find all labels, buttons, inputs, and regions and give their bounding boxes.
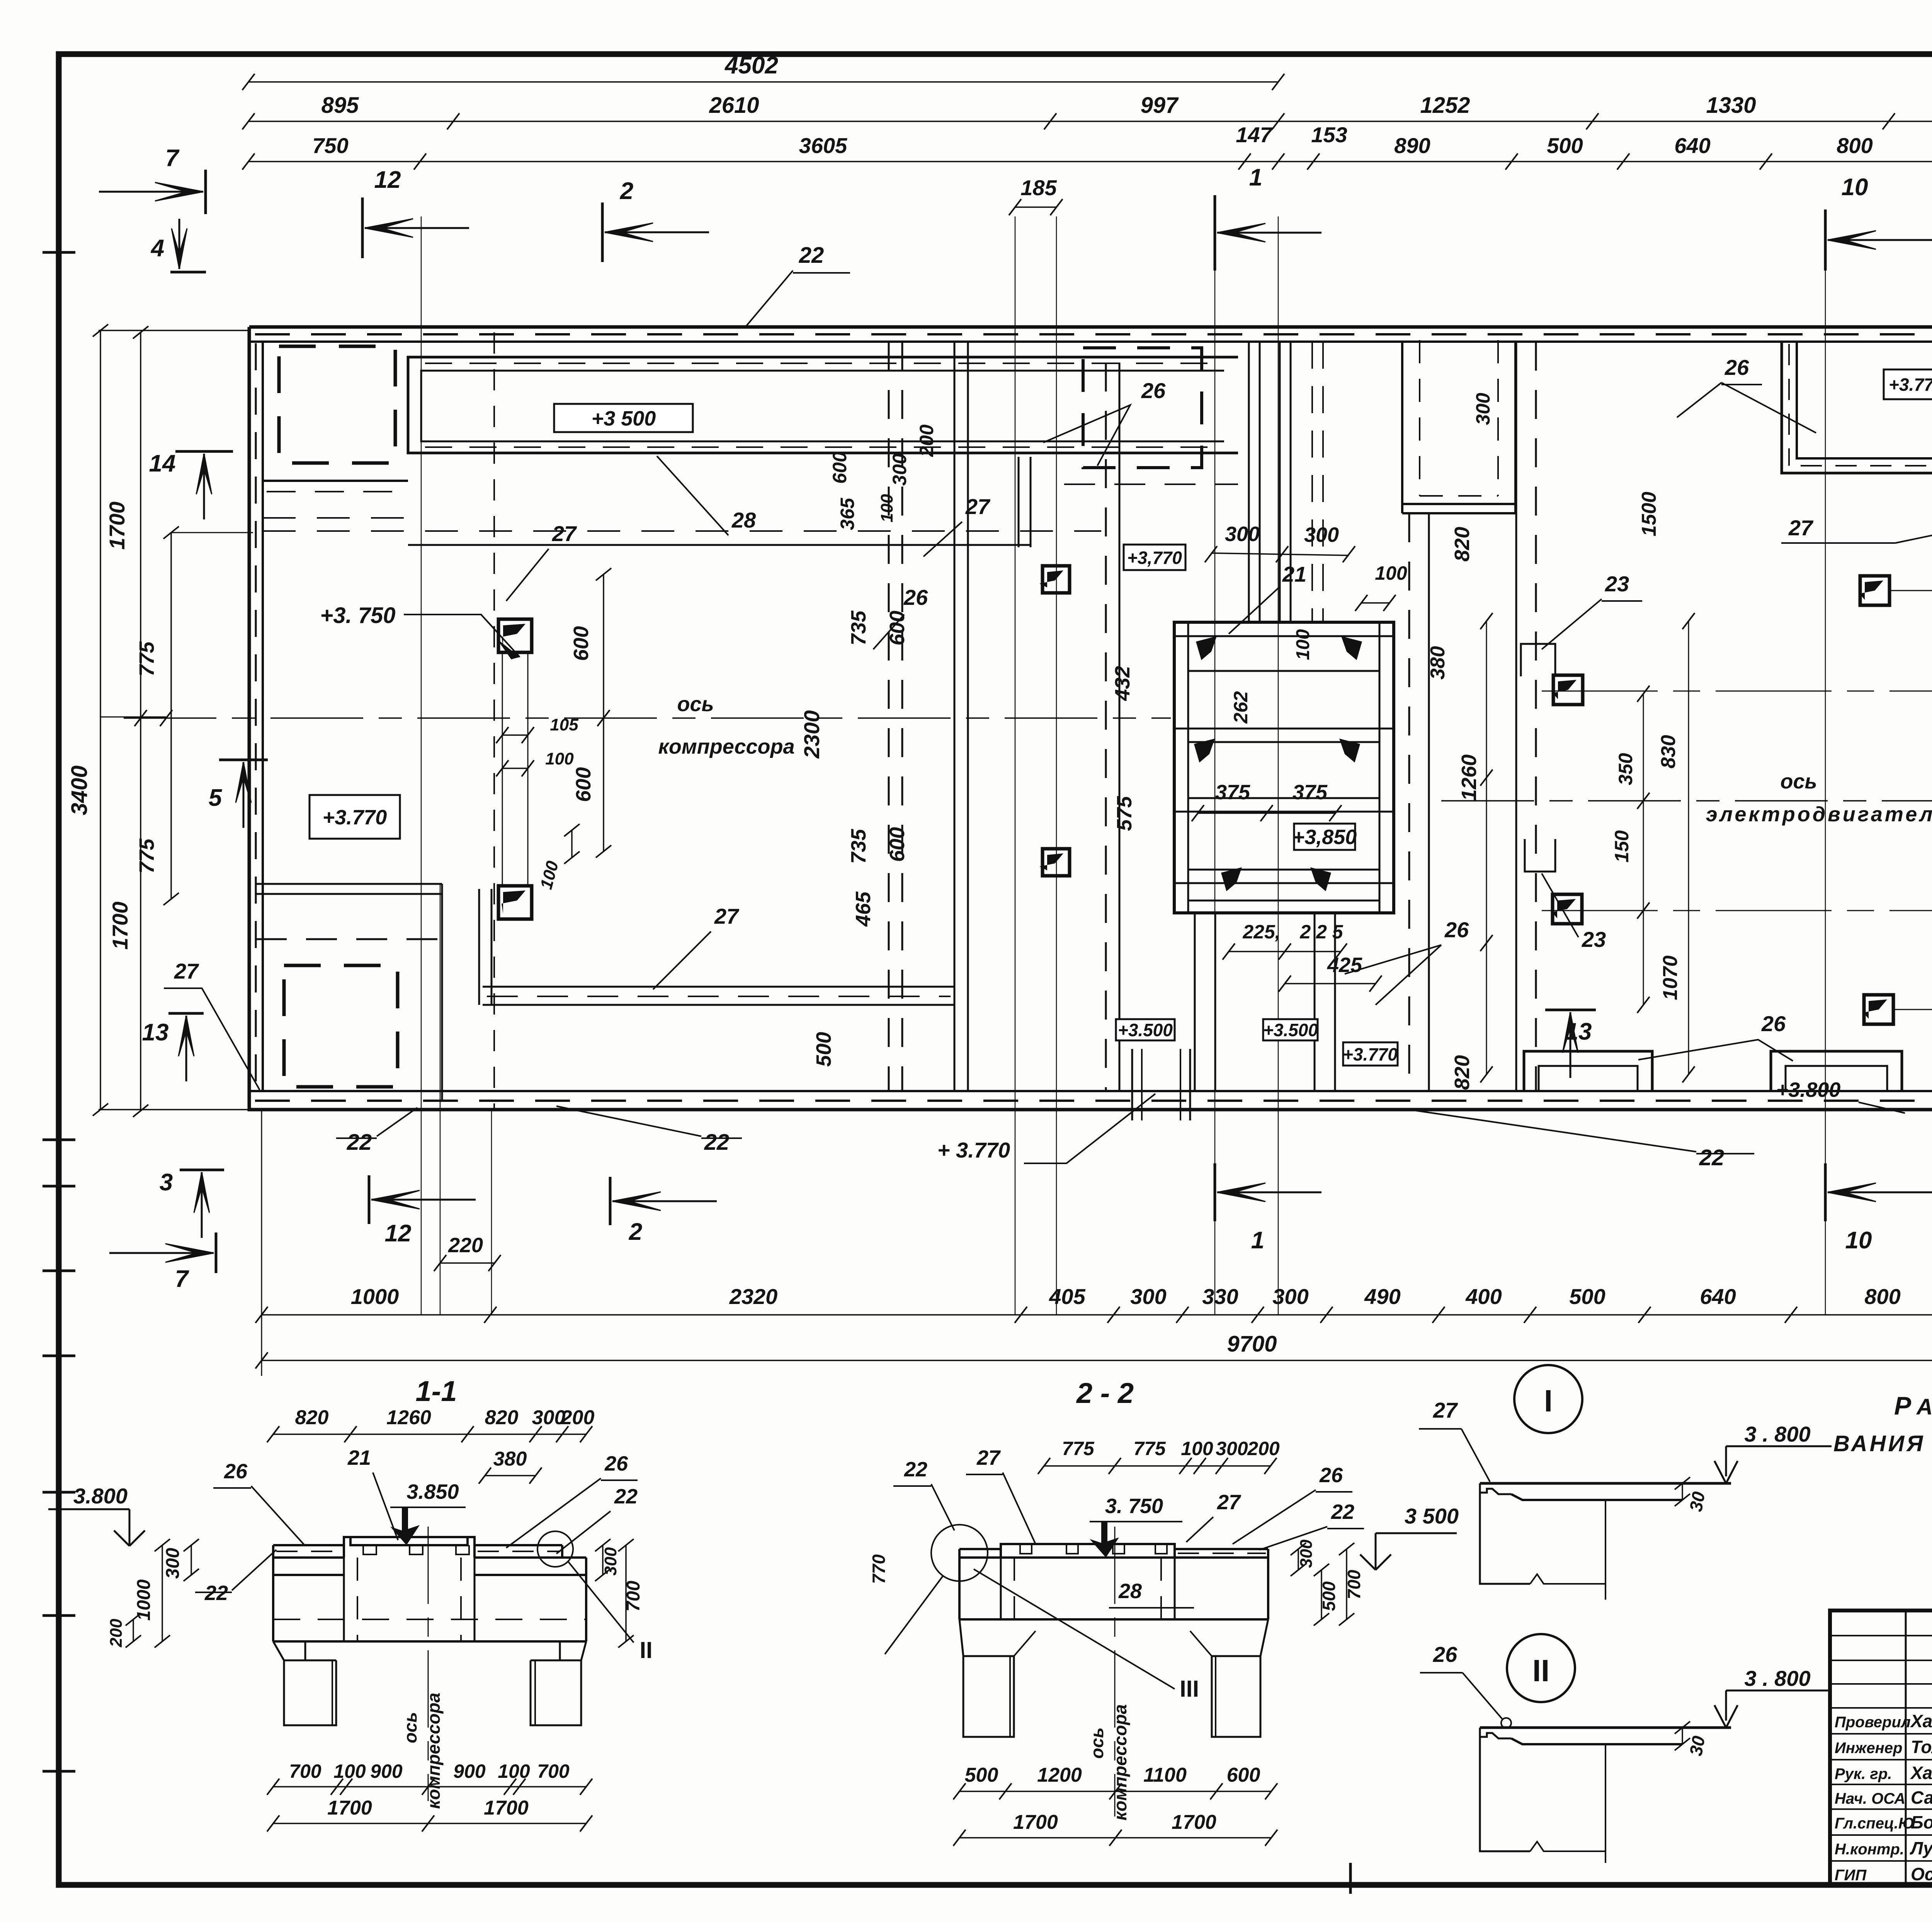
motor axis bbox=[1441, 800, 1932, 802]
detail I 30 dim bbox=[1682, 1483, 1683, 1500]
svg-text:490: 490 bbox=[1364, 1284, 1400, 1309]
svg-text:300: 300 bbox=[1225, 523, 1260, 546]
svg-text:4: 4 bbox=[150, 235, 164, 262]
svg-text:27: 27 bbox=[552, 521, 577, 546]
section mark 14 bbox=[175, 450, 233, 453]
svg-text:+3.770: +3.770 bbox=[323, 806, 387, 829]
svg-text:27: 27 bbox=[1788, 516, 1814, 540]
level label +3,850 bbox=[1294, 824, 1355, 850]
svg-text:30: 30 bbox=[1685, 1734, 1709, 1757]
svg-text:5: 5 bbox=[209, 785, 223, 811]
svg-text:770: 770 bbox=[869, 1554, 889, 1584]
svg-text:+3.500: +3.500 bbox=[1263, 1020, 1318, 1040]
svg-text:3.850: 3.850 bbox=[406, 1480, 459, 1503]
title block outer bbox=[1830, 1610, 1932, 1885]
svg-text:2610: 2610 bbox=[709, 93, 759, 118]
section mark 12 bbox=[361, 197, 364, 258]
svg-text:26: 26 bbox=[224, 1460, 248, 1483]
west room south wall bbox=[256, 883, 442, 885]
svg-text:375: 375 bbox=[1293, 781, 1328, 804]
dim 100 over pedestal bbox=[1361, 602, 1389, 604]
svg-text:600: 600 bbox=[572, 767, 595, 802]
svg-text:600: 600 bbox=[1227, 1764, 1260, 1786]
svg-text:1700: 1700 bbox=[327, 1797, 372, 1819]
dims 225/225/425 below pedestal bbox=[1229, 951, 1341, 952]
svg-text:4502: 4502 bbox=[724, 52, 778, 79]
svg-text:262: 262 bbox=[1230, 691, 1252, 724]
section mark 3 bbox=[180, 1169, 224, 1171]
svg-text:100: 100 bbox=[1293, 629, 1313, 660]
svg-text:Толмачева: Толмачева bbox=[1911, 1737, 1932, 1757]
svg-text:+3. 750: +3. 750 bbox=[320, 603, 395, 628]
pedestal risers to bottom band bbox=[1194, 913, 1196, 1091]
svg-text:820: 820 bbox=[1451, 527, 1474, 562]
svg-text:компрессора: компрессора bbox=[1110, 1704, 1130, 1821]
svg-text:380: 380 bbox=[493, 1448, 527, 1470]
svg-text:Гл.спец.Ю: Гл.спец.Ю bbox=[1835, 1815, 1915, 1832]
svg-text:9700: 9700 bbox=[1227, 1331, 1277, 1357]
svg-text:735: 735 bbox=[847, 829, 870, 864]
svg-text:3 500: 3 500 bbox=[1405, 1504, 1459, 1528]
detail I profile bbox=[1480, 1482, 1731, 1485]
level label +3,770 bbox=[1124, 545, 1185, 570]
pit dashed square top-left bbox=[279, 346, 395, 463]
svg-text:2320: 2320 bbox=[729, 1284, 778, 1309]
walls east of pedestal bbox=[1408, 513, 1410, 1091]
svg-text:3 . 800: 3 . 800 bbox=[1744, 1666, 1810, 1690]
svg-text:Р: Р bbox=[1894, 1391, 1912, 1420]
svg-text:330: 330 bbox=[1202, 1284, 1238, 1309]
pedestal inner lines bbox=[1174, 635, 1394, 637]
svg-text:2300: 2300 bbox=[799, 710, 824, 759]
plan outer contour bbox=[249, 325, 1932, 329]
svg-text:900: 900 bbox=[370, 1760, 403, 1782]
svg-text:153: 153 bbox=[1311, 123, 1347, 147]
svg-text:300: 300 bbox=[1216, 1438, 1248, 1459]
svg-text:1252: 1252 bbox=[1420, 93, 1470, 118]
svg-text:1070: 1070 bbox=[1659, 955, 1682, 1000]
svg-text:21: 21 bbox=[1282, 562, 1306, 586]
niche east of risers bbox=[1401, 342, 1403, 513]
vertical dims right of 1-1 bbox=[602, 1545, 604, 1575]
svg-text:100: 100 bbox=[545, 749, 574, 768]
svg-text:220: 220 bbox=[448, 1234, 483, 1257]
section 2-2 body bbox=[959, 1548, 1001, 1550]
svg-text:26: 26 bbox=[1141, 378, 1166, 403]
section mark 12 bbox=[368, 1175, 371, 1224]
svg-text:1700: 1700 bbox=[105, 502, 129, 550]
svg-text:225,: 225, bbox=[1242, 921, 1280, 943]
svg-text:400: 400 bbox=[1465, 1284, 1502, 1309]
svg-text:14: 14 bbox=[149, 450, 176, 477]
section mark 5 bbox=[219, 759, 268, 761]
svg-text:Бояоченко: Бояоченко bbox=[1911, 1812, 1932, 1832]
svg-text:150: 150 bbox=[1611, 830, 1633, 863]
svg-text:700: 700 bbox=[289, 1760, 321, 1782]
section 1-1 bottom dims bbox=[273, 1786, 586, 1788]
svg-text:27: 27 bbox=[1433, 1398, 1458, 1422]
svg-text:3400: 3400 bbox=[67, 765, 92, 815]
trench +3.500 bbox=[408, 357, 1238, 453]
svg-text:100: 100 bbox=[498, 1760, 530, 1782]
plan bottom wall band bbox=[249, 1090, 1932, 1092]
svg-text:Саакьянц: Саакьянц bbox=[1911, 1788, 1932, 1808]
svg-text:3 . 800: 3 . 800 bbox=[1744, 1422, 1810, 1446]
svg-text:185: 185 bbox=[1020, 175, 1057, 200]
dashed pit right of trench bbox=[1083, 348, 1202, 468]
svg-text:7: 7 bbox=[165, 145, 180, 172]
svg-text:700: 700 bbox=[1344, 1570, 1364, 1599]
section 2-2 bottom dims bbox=[959, 1791, 1271, 1792]
svg-text:III: III bbox=[1180, 1676, 1199, 1702]
svg-text:775: 775 bbox=[135, 838, 158, 873]
svg-text:26: 26 bbox=[1725, 355, 1749, 380]
svg-text:3: 3 bbox=[160, 1169, 173, 1196]
svg-text:Нач. ОСА: Нач. ОСА bbox=[1835, 1790, 1905, 1807]
svg-text:200: 200 bbox=[1247, 1438, 1280, 1459]
svg-text:+ 3.770: + 3.770 bbox=[937, 1138, 1010, 1162]
section mark 1 bbox=[1214, 1163, 1216, 1221]
svg-text:+3,850: +3,850 bbox=[1293, 826, 1357, 849]
svg-text:Рук. гр.: Рук. гр. bbox=[1835, 1765, 1892, 1782]
dims over pedestal 300/300 bbox=[1211, 553, 1349, 555]
svg-text:350: 350 bbox=[1615, 753, 1636, 785]
svg-text:1700: 1700 bbox=[484, 1797, 529, 1819]
section mark 10 bbox=[1824, 1163, 1827, 1221]
svg-text:23: 23 bbox=[1605, 572, 1629, 596]
frame centering ticks bbox=[43, 251, 75, 254]
svg-text:28: 28 bbox=[1118, 1580, 1142, 1603]
svg-text:ось: ось bbox=[677, 693, 714, 716]
svg-text:13: 13 bbox=[142, 1019, 169, 1046]
svg-text:600: 600 bbox=[570, 626, 593, 661]
svg-text:465: 465 bbox=[852, 891, 875, 927]
svg-text:компрессора: компрессора bbox=[423, 1693, 444, 1809]
pedestal risers to top band bbox=[1248, 342, 1250, 623]
wall band below trench bbox=[263, 530, 1101, 532]
svg-text:II: II bbox=[639, 1637, 652, 1663]
svg-text:22: 22 bbox=[704, 1130, 730, 1155]
svg-text:Ханин: Ханин bbox=[1910, 1763, 1932, 1783]
svg-text:Ханин: Ханин bbox=[1910, 1711, 1932, 1731]
svg-text:300: 300 bbox=[1304, 523, 1339, 546]
svg-text:22: 22 bbox=[614, 1485, 638, 1508]
svg-text:300: 300 bbox=[601, 1547, 620, 1576]
svg-text:300: 300 bbox=[163, 1548, 183, 1579]
svg-text:1700: 1700 bbox=[1013, 1811, 1058, 1833]
svg-text:800: 800 bbox=[1864, 1284, 1900, 1309]
svg-text:1100: 1100 bbox=[1143, 1764, 1187, 1786]
svg-text:775: 775 bbox=[135, 641, 158, 676]
section mark 2 bbox=[609, 1177, 612, 1225]
left vertical dimension columns bbox=[100, 330, 101, 1110]
bottom dim row values bbox=[262, 1314, 1932, 1316]
svg-text:+3 500: +3 500 bbox=[592, 407, 656, 430]
svg-text:2 2 5: 2 2 5 bbox=[1299, 921, 1343, 943]
plan left wall lines bbox=[262, 342, 264, 1091]
svg-text:ось: ось bbox=[400, 1712, 420, 1743]
svg-text:300: 300 bbox=[1272, 1284, 1308, 1309]
svg-text:2: 2 bbox=[620, 178, 633, 204]
svg-text:26: 26 bbox=[1433, 1642, 1458, 1667]
svg-text:365: 365 bbox=[837, 497, 858, 530]
section 1-1 top dims bbox=[273, 1433, 586, 1435]
svg-text:300: 300 bbox=[532, 1406, 566, 1429]
svg-text:26: 26 bbox=[604, 1452, 628, 1475]
bottom niches bbox=[1524, 1051, 1652, 1091]
svg-text:+3.770: +3.770 bbox=[1343, 1044, 1398, 1064]
svg-text:820: 820 bbox=[1451, 1055, 1474, 1090]
section mark 7 bbox=[204, 170, 207, 214]
detail II profile bbox=[1480, 1726, 1731, 1729]
svg-text:Проверил: Проверил bbox=[1835, 1714, 1911, 1731]
dimension row 750/3605/147/153/890/500/640/800/350/1865 bbox=[248, 161, 1932, 162]
elevation mark 3 500 bbox=[1360, 1554, 1376, 1570]
svg-text:900: 900 bbox=[453, 1760, 486, 1782]
svg-text:640: 640 bbox=[1700, 1284, 1736, 1309]
svg-text:1-1: 1-1 bbox=[416, 1375, 457, 1407]
column base squares left hall bbox=[498, 619, 532, 652]
svg-text:500: 500 bbox=[965, 1764, 998, 1786]
svg-text:200: 200 bbox=[561, 1406, 595, 1429]
column squares pedestal bay bbox=[1043, 566, 1070, 593]
detail II 30 dim bbox=[1682, 1728, 1683, 1744]
svg-text:+3.770: +3.770 bbox=[1889, 375, 1932, 395]
svg-text:10: 10 bbox=[1845, 1227, 1872, 1254]
svg-text:II: II bbox=[1532, 1653, 1549, 1688]
west wall piece of pedestal bay bbox=[1018, 457, 1020, 547]
wall steps label 23 bbox=[1521, 644, 1555, 676]
svg-text:1330: 1330 bbox=[1706, 93, 1756, 118]
compressor room south wall bbox=[483, 986, 954, 988]
section mark 1 bbox=[1214, 195, 1216, 271]
svg-text:600: 600 bbox=[886, 827, 909, 862]
svg-text:500: 500 bbox=[1547, 133, 1583, 158]
svg-text:22: 22 bbox=[1699, 1145, 1725, 1170]
plan top wall band bbox=[249, 340, 1932, 343]
svg-text:26: 26 bbox=[1761, 1011, 1786, 1036]
svg-text:ось: ось bbox=[1087, 1728, 1107, 1759]
svg-text:100: 100 bbox=[878, 494, 896, 523]
NW room south wall bbox=[263, 480, 408, 482]
svg-text:1: 1 bbox=[1251, 1227, 1264, 1254]
cut trace lines bbox=[421, 216, 422, 1315]
svg-text:775: 775 bbox=[1133, 1438, 1166, 1459]
section 1-1 body bbox=[273, 1544, 344, 1546]
svg-text:22: 22 bbox=[904, 1458, 927, 1481]
svg-text:1260: 1260 bbox=[386, 1406, 431, 1429]
svg-text:1700: 1700 bbox=[108, 902, 132, 950]
svg-text:700: 700 bbox=[623, 1581, 644, 1612]
section mark 10 bbox=[1824, 209, 1827, 271]
pit dashed square bottom-left bbox=[284, 965, 398, 1087]
svg-text:Луценко: Луценко bbox=[1910, 1838, 1932, 1858]
svg-text:300: 300 bbox=[1297, 1539, 1316, 1568]
svg-text:300: 300 bbox=[1472, 393, 1494, 425]
svg-text:1260: 1260 bbox=[1458, 754, 1481, 801]
svg-text:22: 22 bbox=[1331, 1500, 1354, 1524]
svg-text:30: 30 bbox=[1685, 1490, 1709, 1513]
section 2-2 top dims bbox=[1044, 1465, 1270, 1467]
svg-text:10: 10 bbox=[1842, 174, 1868, 201]
section mark 2 bbox=[601, 203, 604, 262]
svg-text:+3,770: +3,770 bbox=[1127, 548, 1182, 568]
svg-text:895: 895 bbox=[321, 93, 359, 118]
svg-text:200: 200 bbox=[916, 424, 937, 457]
svg-text:820: 820 bbox=[485, 1406, 519, 1429]
extension verticals below plan bbox=[261, 1110, 262, 1376]
level label +3 500 bbox=[554, 404, 693, 432]
svg-text:3.800: 3.800 bbox=[73, 1484, 128, 1508]
level label +3.500 bbox=[1116, 1019, 1175, 1040]
svg-text:1: 1 bbox=[1249, 164, 1262, 191]
detail II circle bbox=[1507, 1634, 1575, 1702]
svg-text:1500: 1500 bbox=[1638, 492, 1660, 536]
svg-text:890: 890 bbox=[1394, 133, 1430, 158]
svg-text:3. 750: 3. 750 bbox=[1105, 1495, 1163, 1518]
elevation mark 3.800 bbox=[114, 1530, 129, 1546]
level label +3.770 bbox=[310, 795, 400, 839]
svg-text:200: 200 bbox=[107, 1619, 126, 1648]
svg-text:Н.контр.: Н.контр. bbox=[1835, 1841, 1904, 1858]
dimension 185 bbox=[1015, 206, 1056, 208]
svg-text:21: 21 bbox=[347, 1446, 371, 1469]
motor hall X squares bbox=[1553, 675, 1583, 705]
svg-text:750: 750 bbox=[312, 133, 348, 158]
svg-text:23: 23 bbox=[1582, 927, 1606, 952]
svg-text:13: 13 bbox=[1565, 1018, 1592, 1045]
svg-text:105: 105 bbox=[550, 715, 578, 734]
section mark 13 bbox=[168, 1012, 204, 1015]
svg-text:820: 820 bbox=[295, 1406, 329, 1429]
svg-text:22: 22 bbox=[347, 1130, 372, 1155]
svg-text:380: 380 bbox=[1427, 646, 1449, 680]
svg-text:100: 100 bbox=[1181, 1438, 1213, 1459]
svg-text:640: 640 bbox=[1674, 133, 1710, 158]
svg-text:26: 26 bbox=[1444, 918, 1469, 942]
svg-text:12: 12 bbox=[374, 167, 401, 193]
svg-text:100: 100 bbox=[333, 1760, 366, 1782]
detail I circle bbox=[1514, 1365, 1582, 1433]
axis ticks bbox=[160, 710, 172, 726]
level label +3.770 bbox=[1884, 369, 1932, 399]
svg-text:500: 500 bbox=[812, 1032, 835, 1067]
section mark 7 bbox=[215, 1233, 218, 1273]
compressor axis bbox=[124, 717, 1171, 719]
svg-text:600: 600 bbox=[886, 611, 909, 645]
svg-text:500: 500 bbox=[1319, 1581, 1339, 1611]
svg-text:Инженер: Инженер bbox=[1835, 1740, 1902, 1757]
svg-text:405: 405 bbox=[1049, 1284, 1085, 1309]
svg-text:7: 7 bbox=[175, 1266, 189, 1292]
pedestal outer bbox=[1174, 622, 1394, 913]
dimension row 4502 bbox=[248, 81, 1278, 83]
svg-text:27: 27 bbox=[1217, 1491, 1242, 1514]
svg-text:+3.500: +3.500 bbox=[1118, 1020, 1173, 1040]
svg-text:300: 300 bbox=[1130, 1284, 1166, 1309]
svg-text:компрессора: компрессора bbox=[658, 735, 794, 758]
svg-text:147: 147 bbox=[1236, 123, 1273, 147]
svg-text:700: 700 bbox=[537, 1760, 570, 1782]
dimension 220 bbox=[440, 1262, 495, 1264]
svg-text:I: I bbox=[1544, 1384, 1553, 1418]
motor hall niche top bbox=[1782, 342, 1932, 473]
svg-text:830: 830 bbox=[1657, 735, 1680, 769]
svg-text:300: 300 bbox=[889, 453, 910, 486]
svg-text:375: 375 bbox=[1215, 781, 1250, 804]
svg-text:1000: 1000 bbox=[351, 1284, 399, 1309]
svg-text:735: 735 bbox=[847, 610, 870, 645]
svg-text:2 - 2: 2 - 2 bbox=[1076, 1377, 1134, 1409]
bolt rows bbox=[1542, 691, 1932, 692]
vertical dims right of 2-2 bbox=[1298, 1549, 1299, 1570]
svg-text:28: 28 bbox=[731, 508, 756, 532]
svg-text:500: 500 bbox=[1569, 1284, 1605, 1309]
svg-text:12: 12 bbox=[385, 1220, 412, 1247]
dim 375/375 bbox=[1198, 812, 1335, 814]
section mark 4 top-left bbox=[170, 271, 206, 274]
svg-text:АЗРЕЗЫ 10- 10 — 14-14 ДАНЫ: АЗРЕЗЫ 10- 10 — 14-14 ДАНЫ НА bbox=[1916, 1394, 1932, 1420]
svg-text:ось: ось bbox=[1780, 770, 1817, 793]
svg-text:27: 27 bbox=[714, 904, 740, 928]
svg-text:1000: 1000 bbox=[134, 1579, 154, 1621]
svg-text:775: 775 bbox=[1062, 1438, 1095, 1459]
section mark 13 bbox=[1545, 1009, 1596, 1011]
trench through bottom wall bbox=[1131, 1049, 1133, 1120]
svg-text:432: 432 bbox=[1111, 666, 1134, 701]
svg-text:Осташевск: Осташевск bbox=[1911, 1864, 1932, 1884]
svg-text:2: 2 bbox=[629, 1219, 642, 1245]
dimension row 9700 bbox=[262, 1360, 1932, 1361]
pedestal corner hooks bbox=[1196, 636, 1217, 660]
dim 380 bbox=[485, 1475, 536, 1476]
level label +3.500 bbox=[1263, 1019, 1318, 1040]
svg-text:26: 26 bbox=[903, 585, 928, 609]
svg-text:997: 997 bbox=[1141, 93, 1179, 118]
level label +3.770 bbox=[1343, 1042, 1398, 1066]
wall pair west of pedestal bbox=[888, 342, 890, 1091]
motor hall dim columns bbox=[1486, 621, 1487, 1074]
vertical dims left of 1-1 bbox=[190, 1545, 192, 1575]
svg-text:1200: 1200 bbox=[1037, 1764, 1082, 1786]
svg-text:27: 27 bbox=[174, 959, 199, 983]
svg-text:1700: 1700 bbox=[1172, 1811, 1216, 1833]
wall east of west room bbox=[441, 884, 443, 1101]
svg-text:600: 600 bbox=[829, 451, 850, 484]
title block signature grid bbox=[1830, 1610, 1932, 1885]
svg-text:ГИП: ГИП bbox=[1835, 1867, 1867, 1884]
svg-text:электродвигателя: электродвигателя bbox=[1706, 803, 1932, 826]
svg-text:27: 27 bbox=[965, 494, 991, 519]
svg-text:100: 100 bbox=[1375, 562, 1407, 584]
svg-text:800: 800 bbox=[1837, 133, 1872, 158]
svg-text:575: 575 bbox=[1113, 796, 1136, 831]
svg-text:3605: 3605 bbox=[799, 133, 847, 158]
small dims 105/100 bbox=[502, 734, 528, 736]
dimension row 895/2610/997/1252/1330/1330/1286 bbox=[248, 121, 1932, 122]
svg-text:27: 27 bbox=[976, 1446, 1001, 1469]
svg-text:ВАНИЯ ПЛИТЫ: ВАНИЯ ПЛИТЫ bbox=[1833, 1431, 1932, 1456]
svg-text:26: 26 bbox=[1319, 1464, 1343, 1487]
svg-text:22: 22 bbox=[799, 243, 824, 268]
svg-text:+3.800: +3.800 bbox=[1776, 1078, 1841, 1101]
